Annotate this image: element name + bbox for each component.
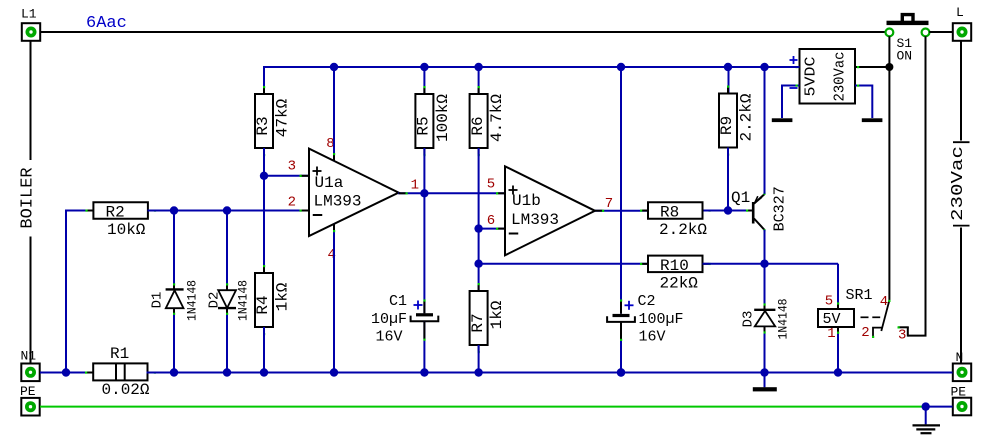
- pin number 7: [605, 196, 613, 212]
- svg-text:D3: D3: [741, 311, 757, 328]
- wire Q1 collector: [764, 230, 766, 264]
- label 230Vac (mains): [949, 146, 968, 221]
- ground bar (supply minus): [772, 118, 793, 122]
- resistor R3: [254, 86, 291, 156]
- wire PE to terminal: [926, 406, 953, 408]
- svg-text:R10: R10: [660, 257, 689, 275]
- svg-text:U1a: U1a: [315, 174, 344, 192]
- wire N1 node: [40, 372, 94, 374]
- capacitor C2: [607, 293, 683, 373]
- wire R7 bottom: [478, 345, 480, 373]
- junction R2 branch: [62, 368, 70, 376]
- wire L1 down to BOILER: [30, 41, 32, 161]
- wire supply minus to GND: [782, 66, 800, 118]
- resistor R8: [640, 202, 711, 239]
- pin number 8: [326, 136, 334, 152]
- junction C1 GND: [420, 368, 428, 376]
- junction R5 top: [420, 63, 428, 71]
- junction pin3: [260, 172, 268, 180]
- svg-text:100kΩ: 100kΩ: [434, 94, 452, 142]
- svg-text:R5: R5: [415, 116, 433, 135]
- wire U1a out: [398, 192, 505, 194]
- junction D3 GND: [760, 368, 768, 376]
- svg-text:N1: N1: [21, 349, 37, 364]
- label 6Aac: [86, 14, 127, 33]
- svg-text:3: 3: [288, 159, 296, 175]
- wire R2 to pin2: [148, 210, 310, 212]
- junction pin6: [474, 224, 482, 232]
- svg-text:1kΩ: 1kΩ: [274, 282, 292, 311]
- junction R6 top: [474, 63, 482, 71]
- junction Q1/D3: [760, 260, 768, 268]
- resistor R6: [469, 86, 506, 156]
- svg-text:100µF: 100µF: [639, 311, 684, 328]
- wire R4 bottom: [263, 327, 265, 373]
- op-amp U1b: [505, 166, 595, 255]
- svg-text:2.2kΩ: 2.2kΩ: [738, 93, 756, 141]
- wire R6 top: [478, 66, 480, 94]
- pin number 5: [487, 177, 495, 193]
- svg-text:C1: C1: [389, 293, 407, 310]
- wire R5 top: [423, 66, 425, 94]
- junction R4 bottom: [260, 368, 268, 376]
- label - (supply DC minus): [790, 87, 798, 89]
- svg-text:5: 5: [825, 294, 833, 310]
- junction C2/GND: [617, 368, 625, 376]
- junction D2 top: [223, 206, 231, 214]
- svg-text:R6: R6: [469, 116, 487, 135]
- svg-text:1N4148: 1N4148: [776, 299, 791, 340]
- svg-text:D2: D2: [207, 292, 223, 309]
- svg-text:L: L: [956, 5, 964, 20]
- svg-text:BC327: BC327: [772, 186, 789, 231]
- pin number 1 (relay): [827, 326, 835, 342]
- wire +5V rail: [264, 66, 800, 68]
- svg-text:1kΩ: 1kΩ: [488, 300, 506, 329]
- op-amp U1a: [300, 149, 399, 236]
- svg-text:22kΩ: 22kΩ: [660, 275, 699, 293]
- wire R5 bottom: [423, 148, 425, 193]
- svg-text:1N4148: 1N4148: [236, 280, 251, 321]
- svg-text:5VDC: 5VDC: [803, 57, 820, 97]
- wire BOILER to N1: [30, 237, 32, 364]
- svg-text:ON: ON: [897, 49, 913, 64]
- svg-text:2: 2: [861, 325, 869, 341]
- wire S1 right pin down to relay contact 3: [898, 36, 926, 336]
- svg-text:PE: PE: [951, 385, 967, 400]
- svg-text:R3: R3: [254, 116, 272, 135]
- junction R9 top: [724, 63, 732, 71]
- resistor R1 (shunt 0.02): [85, 345, 156, 399]
- svg-text:10µF: 10µF: [371, 311, 407, 328]
- junction C2 GND: [617, 368, 625, 376]
- svg-text:1: 1: [827, 326, 835, 342]
- terminal N1: [21, 349, 40, 382]
- wire R10 left: [479, 263, 648, 265]
- svg-text:2: 2: [288, 195, 296, 211]
- svg-text:SR1: SR1: [846, 287, 873, 304]
- junction D1 top: [170, 206, 178, 214]
- wire supply AC neutral to GND: [855, 66, 872, 118]
- wire Q1 emitter: [764, 67, 766, 194]
- junction S1/supply (black): [885, 63, 893, 71]
- ground bar (supply AC side): [862, 118, 883, 122]
- label BOILER: [19, 167, 38, 228]
- earth symbol: [913, 407, 941, 434]
- junction C2 top: [617, 63, 625, 71]
- wire N terminal: [39, 372, 41, 374]
- transistor Q1: [731, 186, 789, 231]
- wire relay coil down: [837, 264, 839, 309]
- wire L down (230Vac annotation): [960, 41, 962, 141]
- svg-text:R7: R7: [469, 313, 487, 332]
- junction PE: [922, 402, 930, 410]
- pin number 1: [411, 178, 419, 194]
- svg-text:R9: R9: [718, 116, 736, 135]
- pin number 3: [288, 159, 296, 175]
- junction D1 bottom: [170, 368, 178, 376]
- wire R10 to relay: [703, 263, 839, 265]
- svg-text:1: 1: [411, 178, 419, 194]
- tick upper: [953, 141, 970, 143]
- wire pin6: [479, 228, 505, 230]
- power supply U2 5VDC/230Vac box: [800, 49, 856, 104]
- junction D2 bottom: [223, 368, 231, 376]
- wire relay pin1 to GND: [837, 327, 839, 373]
- pin number 4: [328, 247, 336, 263]
- svg-text:10kΩ: 10kΩ: [107, 221, 146, 239]
- wire 230Vac to N terminal: [960, 228, 962, 364]
- svg-text:R4: R4: [254, 295, 272, 314]
- resistor R5: [415, 86, 452, 156]
- svg-text:R1: R1: [110, 345, 129, 363]
- wire PE (green): [40, 406, 926, 408]
- junction R7 GND: [474, 368, 482, 376]
- relay SR1 coil: [818, 287, 873, 328]
- junction out/R5/C1: [420, 189, 428, 197]
- junction Q1 emitter: [760, 63, 768, 71]
- svg-text:230Vac: 230Vac: [832, 52, 849, 102]
- resistor R2: [85, 202, 156, 239]
- wire L1 to S1 (top live): [40, 31, 886, 33]
- diode D1: [150, 211, 200, 373]
- ground symbol (D3): [753, 373, 777, 392]
- svg-text:5: 5: [487, 177, 495, 193]
- wire pin3: [264, 175, 309, 177]
- svg-text:230Vac: 230Vac: [949, 146, 968, 221]
- wire C1 top: [423, 193, 425, 313]
- svg-text:3: 3: [898, 327, 906, 343]
- wire GND rail: [147, 372, 953, 374]
- pin number 2 (relay): [861, 325, 869, 341]
- junction relay GND: [834, 368, 842, 376]
- pin number 2: [288, 195, 296, 211]
- svg-text:LM393: LM393: [314, 192, 362, 210]
- svg-text:R8: R8: [660, 204, 679, 222]
- switch S1: [886, 15, 930, 64]
- svg-text:16V: 16V: [639, 328, 666, 345]
- pin number 6: [487, 213, 495, 229]
- terminal PE left: [20, 384, 40, 416]
- wire supply AC live: [855, 66, 889, 68]
- wire R8 to base: [704, 210, 752, 212]
- svg-text:L1: L1: [21, 7, 37, 22]
- junction pin8: [330, 63, 338, 71]
- wire C2 top: [620, 67, 622, 314]
- pin number 3 (relay): [898, 327, 906, 343]
- wire pin8 (V+): [333, 67, 335, 161]
- resistor R7: [469, 283, 506, 353]
- svg-text:C2: C2: [638, 293, 656, 310]
- svg-text:47kΩ: 47kΩ: [274, 98, 292, 137]
- svg-text:4.7kΩ: 4.7kΩ: [488, 94, 506, 142]
- svg-text:2.2kΩ: 2.2kΩ: [659, 221, 707, 239]
- wire R9 top: [728, 66, 730, 94]
- resistor R10: [640, 256, 711, 293]
- wire S1 to L terminal: [929, 31, 953, 33]
- pin number 5 (relay): [825, 294, 833, 310]
- wire pin4 (V-): [333, 224, 335, 373]
- svg-text:16V: 16V: [376, 328, 403, 345]
- label + (supply DC plus): [790, 56, 798, 64]
- terminal PE right: [951, 385, 972, 416]
- terminal L: [953, 5, 971, 41]
- svg-text:Q1: Q1: [731, 189, 750, 207]
- diode D3: [741, 264, 791, 373]
- wire S1 left pin down to relay contact 4: [888, 36, 890, 301]
- svg-text:LM393: LM393: [511, 211, 559, 229]
- diode D2: [207, 211, 251, 373]
- svg-text:PE: PE: [20, 384, 36, 399]
- pin number 4 (relay): [880, 294, 888, 310]
- junction R8/R9: [724, 206, 732, 214]
- capacitor C1: [371, 293, 438, 373]
- svg-text:N: N: [956, 350, 964, 365]
- junction pin4 GND: [330, 368, 338, 376]
- resistor R4: [254, 265, 291, 335]
- wire U1b out: [595, 210, 649, 212]
- wire R9 bottom: [727, 148, 729, 211]
- svg-text:6: 6: [487, 213, 495, 229]
- svg-text:D1: D1: [150, 292, 166, 309]
- svg-text:1N4148: 1N4148: [185, 280, 200, 321]
- svg-text:0.02Ω: 0.02Ω: [102, 381, 150, 399]
- wire R3-R4: [263, 148, 265, 273]
- terminal L1: [21, 7, 40, 41]
- resistor R9: [718, 86, 755, 156]
- wire R2 branch: [66, 211, 93, 373]
- wire R3 top: [263, 66, 265, 94]
- wire R6 down: [478, 148, 480, 291]
- svg-text:R2: R2: [106, 204, 125, 222]
- terminal N: [953, 350, 971, 381]
- svg-text:BOILER: BOILER: [19, 167, 38, 228]
- junction R10 left: [474, 260, 482, 268]
- svg-text:U1b: U1b: [512, 192, 541, 210]
- tick lower: [953, 225, 970, 227]
- svg-text:6Aac: 6Aac: [86, 14, 127, 33]
- relay contact: [861, 300, 900, 338]
- svg-text:7: 7: [605, 196, 613, 212]
